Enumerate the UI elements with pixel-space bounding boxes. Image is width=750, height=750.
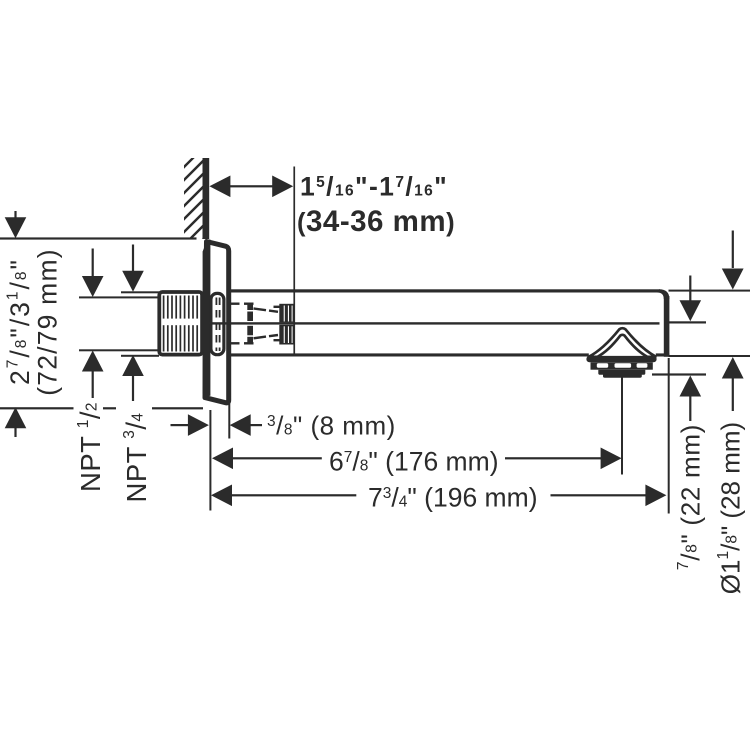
- svg-text:67/8" (176 mm): 67/8" (176 mm): [329, 446, 499, 476]
- svg-text:NPT 3/4: NPT 3/4: [121, 413, 152, 503]
- svg-text:Ø11/8" (28 mm): Ø11/8" (28 mm): [715, 422, 745, 594]
- svg-text:NPT 1/2: NPT 1/2: [75, 402, 106, 492]
- svg-text:73/4" (196 mm): 73/4" (196 mm): [368, 483, 538, 513]
- svg-text:(34-36 mm): (34-36 mm): [297, 205, 455, 238]
- svg-text:(72/79 mm): (72/79 mm): [33, 248, 63, 395]
